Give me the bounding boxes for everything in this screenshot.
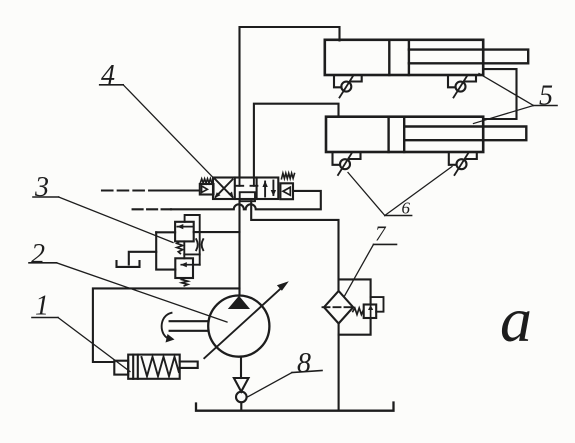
- svg-text:3: 3: [34, 172, 49, 203]
- wire: pump suction down to strainer 8: [240, 357, 242, 378]
- label 6: [385, 199, 412, 218]
- svg-text:7: 7: [375, 222, 387, 246]
- mount: cylinder 5b left pivot: [333, 152, 361, 175]
- label 1: [32, 291, 58, 322]
- leader line for label 8: [247, 373, 293, 398]
- pump 2 rotation arc: [162, 313, 175, 343]
- valve U4 centre cell blocked ports: [236, 178, 257, 202]
- valve U4 body (3 sections): [213, 178, 278, 200]
- filter 7 bypass spring: [353, 308, 364, 315]
- strainer 8 ball: [236, 392, 247, 403]
- svg-text:a: a: [500, 284, 532, 355]
- pilot line (dashed) into valve left end: [102, 189, 199, 191]
- relief block 3: link line beside spring: [183, 241, 185, 258]
- filter 7 diamond: [324, 291, 353, 324]
- wire: swash-plate control line from pressure line to control cylinder 1: [93, 288, 240, 362]
- svg-text:5: 5: [539, 81, 553, 112]
- wire: strainer to tank: [240, 402, 242, 409]
- cylinder 5b body: [326, 117, 483, 152]
- cylinder 5a piston: [389, 40, 409, 75]
- relief block 3: pilot loop over upper valve: [185, 215, 200, 232]
- tank: [196, 403, 394, 411]
- leader line for label 4: [123, 85, 214, 179]
- cylinder 5b piston: [389, 117, 405, 152]
- wire: valve port B up and over to cylinder 5b cap end: [254, 104, 339, 178]
- leader lines for label 5: [474, 74, 534, 124]
- label 2: [29, 239, 57, 270]
- relief block 3: throttle line with orifice: [184, 232, 203, 265]
- label 7: [374, 222, 397, 246]
- valve U4 right spring: [282, 173, 295, 179]
- leader line for label 2: [57, 263, 228, 322]
- strainer 8 funnel: [234, 378, 249, 392]
- mount: cylinder 5a left pivot: [334, 75, 362, 98]
- wire: filter to tank: [338, 324, 340, 410]
- label 4: [100, 60, 124, 91]
- valve U4 right cell straight arrows: [262, 181, 276, 197]
- svg-text:2: 2: [31, 239, 45, 270]
- wire: pressure line P from valve down to pump 2: [238, 201, 240, 295]
- relief block 3: lower valve square: [175, 258, 193, 278]
- leader lines for label 6: [348, 167, 452, 216]
- label 5: [533, 81, 557, 112]
- relief block 3: upper valve spring: [177, 241, 183, 253]
- filter 7 bypass loop: [339, 279, 371, 334]
- relief block 3: drain line and mini tank: [117, 252, 157, 267]
- valve U4 left spring: [200, 179, 212, 183]
- mount: cylinder 5b right pivot: [449, 152, 477, 175]
- wire: relief block 3 left side loop: [156, 232, 175, 269]
- svg-text:8: 8: [297, 348, 311, 379]
- filter 7 element dashed line: [323, 306, 355, 308]
- wire: relief block 3 to pressure line: [194, 231, 240, 233]
- pilot line (dashed) feedback under valve with crossover hops: [133, 191, 321, 209]
- filter 7 bypass pilot hook: [371, 297, 384, 312]
- svg-text:4: 4: [101, 60, 115, 91]
- wire: tank return line T from valve to filter 7: [251, 201, 338, 291]
- svg-text:6: 6: [402, 199, 411, 218]
- relief block 3: lower valve spring: [182, 278, 188, 286]
- filter 7 bypass relief valve: [364, 305, 377, 319]
- leader line for label 1: [58, 318, 130, 372]
- cylinder 5a rod: [409, 50, 528, 64]
- pump 2 circle: [208, 296, 269, 357]
- valve U4 left pilot box: [200, 184, 214, 195]
- control cylinder 1 spring: [142, 357, 179, 377]
- leader line for label 3: [59, 197, 173, 243]
- mount: cylinder 5a right pivot: [448, 75, 476, 98]
- control cylinder 1 body: [114, 355, 179, 379]
- control cylinder 1 rod: [180, 362, 198, 368]
- wire: valve port A up and over to cylinder 5a cap end: [240, 27, 340, 178]
- cylinder 5a body: [325, 40, 483, 75]
- relief block 3: upper valve square: [175, 222, 194, 242]
- valve U4 right pilot box: [280, 183, 293, 199]
- label 8: [292, 348, 322, 379]
- wire: rod-end pipe linking cylinder 5a to cylinder 5b: [483, 69, 516, 119]
- cylinder 5b rod: [404, 127, 526, 141]
- pump 2 outlet triangle: [228, 296, 250, 309]
- leader line for label 7: [345, 244, 374, 296]
- valve U4 left cell crossed arrows: [215, 180, 234, 199]
- pump 2 drive shaft: [170, 321, 209, 331]
- pump 2 variable displacement arrow: [204, 281, 288, 358]
- label 3: [33, 172, 59, 203]
